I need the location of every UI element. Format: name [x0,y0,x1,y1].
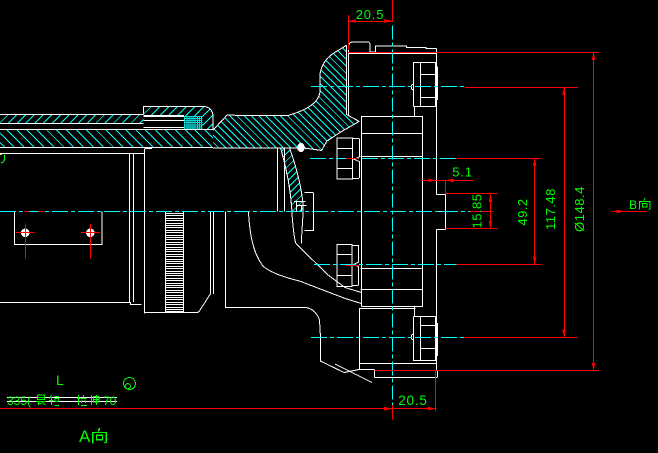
svg-text:49.2: 49.2 [515,198,530,225]
svg-text:Ø148.4: Ø148.4 [572,186,587,232]
svg-text:117.48: 117.48 [543,188,558,230]
svg-text:B: B [629,198,637,212]
svg-text:335(: 335( [7,394,31,408]
svg-text:20.5: 20.5 [356,7,385,22]
svg-text:L: L [56,372,64,388]
svg-text:5.1: 5.1 [452,165,472,180]
svg-text:20.5: 20.5 [398,393,427,408]
svg-text:A: A [79,427,91,446]
svg-text:70: 70 [103,394,117,408]
svg-text:15.85: 15.85 [470,193,485,228]
